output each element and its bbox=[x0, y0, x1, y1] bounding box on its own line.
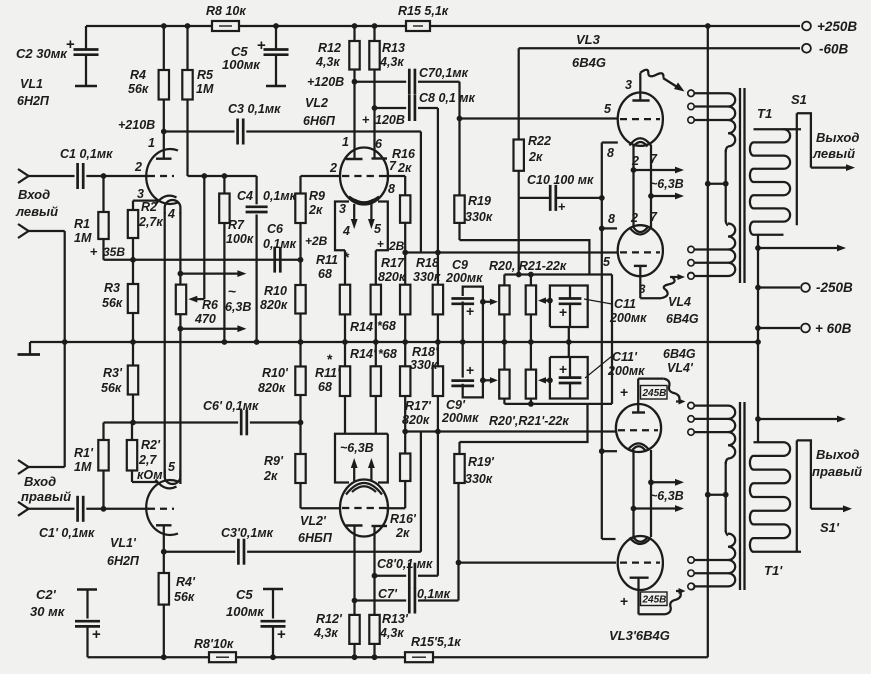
heater arrow up 2 bbox=[370, 464, 372, 481]
VL1 grid dashes bbox=[148, 175, 174, 177]
C9' wiper arrow bbox=[480, 377, 486, 383]
svg-text:+2В: +2В bbox=[305, 234, 328, 248]
resistor R17 bbox=[404, 253, 406, 285]
resistor R19' bbox=[458, 442, 460, 454]
svg-text:200мк: 200мк bbox=[445, 271, 483, 285]
svg-text:+: + bbox=[466, 303, 474, 319]
resistor R2 bbox=[132, 201, 134, 210]
node C8' tap bbox=[372, 573, 378, 579]
svg-text:68: 68 bbox=[318, 380, 332, 394]
svg-text:R10: R10 bbox=[264, 284, 287, 298]
svg-text:8: 8 bbox=[607, 146, 614, 160]
network top wire bbox=[504, 273, 612, 275]
svg-text:100мк: 100мк bbox=[226, 604, 265, 619]
capacitor C4 bbox=[255, 176, 257, 204]
node +120V bbox=[352, 79, 358, 85]
ground symbol bbox=[29, 342, 31, 354]
svg-text:R9': R9' bbox=[264, 454, 284, 468]
svg-text:R12': R12' bbox=[316, 612, 343, 626]
resistor R12' bbox=[352, 654, 358, 660]
potentiometer R21 bbox=[530, 275, 532, 286]
wire VL2' pin7 to R16' bbox=[386, 507, 405, 509]
svg-text:R15'5,1к: R15'5,1к bbox=[411, 635, 461, 649]
svg-text:+: + bbox=[92, 626, 101, 643]
C11' label pointer bbox=[585, 356, 612, 378]
svg-text:4,3к: 4,3к bbox=[313, 626, 338, 640]
wire C3' node bbox=[164, 551, 236, 553]
svg-text:VL1': VL1' bbox=[110, 536, 137, 550]
T1' primary lower terminal pins bbox=[688, 557, 694, 563]
capacitor C1 bbox=[76, 163, 79, 189]
svg-text:200мк: 200мк bbox=[607, 364, 645, 378]
svg-text:7: 7 bbox=[650, 152, 658, 166]
svg-text:R17: R17 bbox=[381, 256, 405, 270]
svg-text:R9: R9 bbox=[309, 189, 325, 203]
svg-text:+210В: +210В bbox=[118, 118, 155, 132]
svg-text:820к: 820к bbox=[260, 298, 288, 312]
resistor R4 bbox=[161, 23, 167, 29]
resistor R16 bbox=[400, 195, 410, 223]
capacitor C8' bbox=[408, 563, 411, 589]
resistor R10 bbox=[299, 260, 301, 285]
terminal +250V bbox=[802, 22, 811, 31]
wire C7' node bbox=[355, 599, 407, 601]
VL4 pin8 jog bbox=[599, 226, 605, 232]
svg-text:330к: 330к bbox=[465, 472, 493, 486]
resistor R11' bbox=[344, 342, 346, 366]
VL3 grid dashes bbox=[620, 118, 660, 120]
output arrow left bbox=[811, 166, 850, 168]
resistor R19 bbox=[458, 119, 460, 196]
capacitor C3' bbox=[237, 539, 240, 565]
C9 wiper arrow bbox=[480, 299, 486, 305]
svg-text:820к: 820к bbox=[258, 381, 286, 395]
svg-text:+120В: +120В bbox=[307, 75, 344, 89]
input arrow right channel hot bbox=[18, 502, 29, 516]
capacitor C1' bbox=[76, 496, 79, 522]
output arrow right bbox=[811, 508, 847, 510]
svg-text:VL4': VL4' bbox=[667, 361, 694, 375]
svg-text:R3: R3 bbox=[104, 281, 120, 295]
wire bottom bus bbox=[88, 656, 210, 658]
svg-text:-250В: -250В bbox=[816, 280, 853, 295]
tube VL2 bbox=[340, 148, 388, 205]
resistor R14 bbox=[375, 250, 377, 284]
VL4 grid dashes bbox=[620, 251, 660, 253]
svg-text:VL1: VL1 bbox=[20, 77, 43, 91]
svg-text:R5: R5 bbox=[197, 68, 214, 82]
switch S1 bbox=[797, 113, 811, 167]
tube VL4 bbox=[618, 225, 663, 276]
resistor R18 bbox=[437, 253, 439, 285]
wire C8' node bbox=[375, 575, 407, 577]
VL3' pin8 jog bbox=[602, 538, 616, 540]
node +120V lower bbox=[372, 105, 378, 111]
svg-text:30 мк: 30 мк bbox=[30, 604, 66, 619]
svg-text:6НБП: 6НБП bbox=[298, 531, 333, 545]
svg-text:245В: 245В bbox=[642, 595, 667, 606]
potentiometer R20 bbox=[503, 275, 505, 286]
node VL1' anode bbox=[161, 549, 167, 555]
svg-text:6В4G: 6В4G bbox=[572, 55, 606, 70]
capacitor C11' loop bbox=[550, 357, 588, 399]
resistor R12 bbox=[352, 23, 358, 29]
VL1 cathode bbox=[156, 196, 177, 205]
svg-text:5: 5 bbox=[604, 102, 612, 116]
VL4 heater arcs bbox=[630, 228, 652, 235]
heater tap arrow bottom upper bbox=[648, 479, 654, 485]
wire +120V to C7 bbox=[355, 81, 407, 83]
T1 primary terminal wires bbox=[695, 92, 729, 94]
wire R22 line to network bbox=[518, 198, 520, 275]
resistor R8 (in top bus) bbox=[212, 21, 239, 31]
svg-text:+: + bbox=[559, 361, 567, 377]
wire +210V to C3 to VL4 grid branch bbox=[164, 130, 235, 132]
heater arrow up 1 bbox=[353, 464, 355, 481]
switch S1' bbox=[797, 440, 811, 508]
heater box VL2' bbox=[335, 434, 388, 483]
svg-text:R11: R11 bbox=[316, 253, 338, 267]
wire C3 branch down bbox=[420, 132, 422, 253]
svg-text:2к: 2к bbox=[397, 161, 412, 175]
svg-text:200мк: 200мк bbox=[441, 411, 479, 425]
svg-text:2: 2 bbox=[631, 154, 639, 168]
VL2 cathode arc bbox=[349, 197, 379, 203]
svg-text:VL2: VL2 bbox=[305, 96, 328, 110]
svg-text:C70,1мк: C70,1мк bbox=[419, 66, 469, 80]
capacitor C10 bbox=[549, 185, 552, 211]
VL3' cathode bbox=[630, 577, 649, 579]
svg-text:R4': R4' bbox=[176, 575, 196, 589]
input arrow left channel return bbox=[18, 224, 29, 238]
svg-text:R13: R13 bbox=[382, 41, 405, 55]
svg-text:VL4: VL4 bbox=[668, 295, 691, 309]
svg-text:C2 30мк: C2 30мк bbox=[16, 46, 68, 61]
node C1-R1 bbox=[101, 173, 107, 179]
svg-text:4: 4 bbox=[342, 224, 350, 238]
wire ground bus bbox=[30, 341, 758, 343]
resistor R13' bbox=[372, 654, 378, 660]
svg-text:1: 1 bbox=[342, 135, 349, 149]
svg-text:С6' 0,1мк: С6' 0,1мк bbox=[203, 399, 259, 413]
terminal pin VL3 plate bbox=[688, 90, 694, 96]
arrow secondary return top bbox=[755, 245, 761, 251]
heater tap arrow upper bbox=[631, 167, 637, 173]
svg-text:+: + bbox=[277, 626, 286, 643]
svg-text:100к: 100к bbox=[226, 232, 254, 246]
svg-text:7: 7 bbox=[389, 159, 397, 173]
svg-text:470: 470 bbox=[194, 312, 216, 326]
svg-text:левый: левый bbox=[15, 204, 58, 219]
wire C10 node bbox=[519, 197, 550, 199]
svg-text:+: + bbox=[66, 36, 75, 53]
wire -60V bus bbox=[519, 47, 800, 49]
svg-text:R4: R4 bbox=[130, 68, 146, 82]
potentiometer R6 bbox=[176, 285, 186, 315]
heater tap arrow lower bbox=[648, 193, 654, 199]
svg-text:C3'0,1мк: C3'0,1мк bbox=[221, 526, 274, 540]
capacitor C2' bbox=[77, 588, 97, 591]
VL3 heater arcs bbox=[630, 138, 652, 145]
resistor R3' bbox=[132, 342, 134, 366]
heater arrow upper ~6.3V bbox=[178, 271, 184, 277]
wire C3' branch up bbox=[420, 432, 422, 552]
resistor R15 (in top bus) bbox=[406, 21, 430, 31]
svg-text:4,3к: 4,3к bbox=[379, 626, 404, 640]
heater box VL2 bbox=[335, 202, 349, 251]
svg-text:*: * bbox=[344, 249, 350, 265]
heater arrow 5 bbox=[370, 204, 372, 223]
svg-text:С8 0,1 мк: С8 0,1 мк bbox=[419, 91, 476, 105]
svg-text:R6: R6 bbox=[202, 298, 219, 312]
svg-text:кОм: кОм bbox=[137, 468, 162, 482]
svg-text:120В: 120В bbox=[375, 113, 405, 127]
VL2' anode bars bbox=[346, 524, 363, 526]
T1' center tap bbox=[705, 492, 711, 498]
T1' primary lower terminal wires bbox=[695, 559, 729, 561]
capacitor C6' bbox=[240, 410, 243, 436]
node ground-bus end bbox=[755, 339, 761, 345]
arrow secondary return bottom bbox=[755, 416, 761, 422]
wire C7 branch down bbox=[458, 82, 460, 119]
svg-text:3: 3 bbox=[625, 78, 632, 92]
T1 primary lower terminal pins bbox=[688, 246, 694, 252]
VL1' cathode bbox=[156, 480, 177, 489]
svg-text:C5: C5 bbox=[236, 587, 253, 602]
svg-text:*68: *68 bbox=[378, 347, 397, 361]
resistor R2' bbox=[131, 423, 133, 441]
VL3' grid dashes bbox=[620, 561, 660, 563]
svg-text:4,3к: 4,3к bbox=[315, 55, 340, 69]
tube VL3' bbox=[618, 536, 663, 590]
svg-text:2к: 2к bbox=[263, 469, 278, 483]
svg-text:4: 4 bbox=[167, 207, 175, 221]
svg-text:0,1мк: 0,1мк bbox=[417, 587, 451, 601]
node C1'-R1' bbox=[101, 506, 107, 512]
svg-text:S1: S1 bbox=[791, 92, 807, 107]
VL1 anode bbox=[156, 157, 172, 159]
svg-text:VL2': VL2' bbox=[300, 514, 327, 528]
svg-text:330к: 330к bbox=[465, 210, 493, 224]
heater leads VL3-VL4 bbox=[632, 145, 634, 228]
resistor R3 bbox=[132, 260, 134, 284]
svg-text:R20',R21'-22к: R20',R21'-22к bbox=[489, 414, 569, 428]
svg-text:2: 2 bbox=[134, 160, 142, 174]
R6 wiper arrow bbox=[203, 176, 205, 299]
T1' core bbox=[739, 402, 741, 590]
tube VL1 (half-envelope) bbox=[146, 149, 178, 204]
capacitor C2 bbox=[85, 26, 87, 49]
svg-text:56к: 56к bbox=[128, 82, 149, 96]
svg-text:3: 3 bbox=[137, 187, 144, 201]
svg-text:2к: 2к bbox=[528, 150, 543, 164]
heater arrow lower ~6.3V bbox=[178, 326, 184, 332]
VL3 pin8 jog bbox=[602, 141, 618, 143]
svg-text:R1': R1' bbox=[74, 446, 94, 460]
svg-text:R16': R16' bbox=[390, 512, 417, 526]
svg-text:C11': C11' bbox=[612, 350, 638, 364]
wire C7' branch up bbox=[457, 563, 459, 601]
resistor R16' bbox=[400, 454, 410, 482]
capacitor C7 bbox=[408, 69, 411, 95]
capacitor C9 loop bbox=[462, 302, 464, 343]
VL3' cathode squiggle to pin bbox=[639, 613, 666, 615]
T1' primary winding upper bbox=[728, 406, 735, 459]
potentiometer R21' bbox=[530, 342, 532, 370]
svg-text:8: 8 bbox=[608, 212, 615, 226]
svg-text:R14': R14' bbox=[350, 347, 377, 361]
node R5 line bbox=[201, 173, 207, 179]
svg-text:R19: R19 bbox=[468, 194, 491, 208]
wire +120V to C8 bbox=[375, 107, 407, 109]
svg-text:6В4G: 6В4G bbox=[663, 347, 696, 361]
svg-text:4,3к: 4,3к bbox=[379, 55, 404, 69]
wire B+ vertical to bottom transformer bbox=[707, 26, 709, 657]
svg-text:+: + bbox=[377, 237, 384, 251]
svg-text:100мк: 100мк bbox=[222, 57, 261, 72]
svg-text:56к: 56к bbox=[174, 590, 195, 604]
VL3' heater arcs bbox=[630, 538, 652, 545]
svg-text:Выход: Выход bbox=[816, 130, 859, 145]
T1 primary lower terminal wires bbox=[695, 248, 729, 250]
svg-text:+: + bbox=[558, 199, 566, 214]
svg-text:820к: 820к bbox=[402, 413, 430, 427]
svg-text:+: + bbox=[466, 362, 474, 378]
terminal pin VL4 cathode bbox=[688, 272, 694, 278]
wire C6' node bbox=[104, 421, 239, 423]
svg-text:Выход: Выход bbox=[816, 447, 859, 462]
svg-text:56к: 56к bbox=[101, 381, 122, 395]
C11 label pointer bbox=[584, 299, 612, 304]
svg-text:2,7к: 2,7к bbox=[138, 215, 163, 229]
capacitor C7' bbox=[408, 588, 411, 614]
capacitor C3 bbox=[236, 119, 239, 145]
wire +35V node bbox=[104, 259, 301, 261]
VL1' grid dashes bbox=[148, 508, 174, 510]
svg-text:6Н6П: 6Н6П bbox=[303, 114, 336, 128]
VL4' heater arcs bbox=[628, 443, 649, 449]
svg-text:R22: R22 bbox=[528, 134, 551, 148]
T1 primary terminal pins bbox=[688, 90, 694, 96]
wire C8 branch down bbox=[437, 108, 439, 253]
resistor R1 bbox=[102, 176, 104, 212]
svg-text:3: 3 bbox=[639, 284, 646, 296]
svg-text:245В: 245В bbox=[642, 388, 667, 399]
node +210V bbox=[161, 129, 167, 135]
svg-text:R7: R7 bbox=[228, 218, 245, 232]
svg-text:R12: R12 bbox=[318, 41, 341, 55]
svg-text:6,3В: 6,3В bbox=[225, 300, 251, 314]
resistor R22 bbox=[518, 48, 520, 139]
svg-text:+250В: +250В bbox=[817, 19, 857, 34]
svg-text:1М: 1М bbox=[196, 82, 214, 96]
svg-text:2к: 2к bbox=[308, 203, 323, 217]
VL4 cathode squiggle to pin bbox=[640, 297, 661, 299]
wire grid-bias line x602 bbox=[601, 198, 603, 539]
capacitor C5' bbox=[263, 588, 283, 591]
svg-text:C3 0,1мк: C3 0,1мк bbox=[228, 102, 281, 116]
svg-text:~: ~ bbox=[228, 283, 236, 299]
VL3 anode bbox=[632, 99, 649, 101]
terminal pin VL3' cathode bbox=[688, 583, 694, 589]
terminal -60V bbox=[802, 44, 811, 53]
svg-text:С6: С6 bbox=[267, 222, 284, 236]
resistor R13 bbox=[372, 23, 378, 29]
svg-text:R11': R11' bbox=[315, 366, 341, 380]
VL2' grid dashes bbox=[342, 507, 386, 509]
VL3 anode squiggle to pin bbox=[640, 70, 663, 78]
svg-text:T1': T1' bbox=[764, 563, 783, 578]
wire VL3 grid feed bbox=[460, 117, 618, 119]
svg-text:+: + bbox=[620, 593, 628, 609]
svg-text:+: + bbox=[257, 37, 266, 54]
svg-text:C10 100 мк: C10 100 мк bbox=[527, 173, 594, 187]
svg-text:R18': R18' bbox=[412, 345, 439, 359]
svg-text:6В4G: 6В4G bbox=[666, 312, 699, 326]
svg-text:2: 2 bbox=[329, 161, 337, 175]
svg-text:1М: 1М bbox=[74, 231, 92, 245]
svg-text:R8'10к: R8'10к bbox=[194, 637, 234, 651]
C11 wiper arrow bbox=[547, 298, 553, 304]
resistor R7 bbox=[223, 176, 225, 194]
svg-text:820к: 820к bbox=[378, 270, 406, 284]
resistor R15' (in bottom bus) bbox=[405, 652, 433, 662]
svg-text:R2': R2' bbox=[141, 438, 161, 452]
VL4' cathode squiggle to pin bbox=[638, 377, 664, 379]
VL4' pin8 jog bbox=[599, 448, 605, 454]
svg-text:3: 3 bbox=[339, 202, 346, 216]
potentiometer R20' bbox=[503, 342, 505, 370]
VL2 anode bars bbox=[346, 158, 363, 160]
capacitor C9' loop bbox=[462, 342, 464, 378]
svg-text:56к: 56к bbox=[102, 296, 123, 310]
svg-text:6Н2П: 6Н2П bbox=[107, 554, 140, 568]
svg-text:2В: 2В bbox=[388, 239, 405, 253]
T1' primary center lead bbox=[725, 462, 727, 532]
VL4' grid dashes bbox=[618, 429, 658, 431]
input arrow right channel return bbox=[29, 466, 65, 468]
resistor R9 bbox=[301, 175, 341, 177]
T1' primary winding lower bbox=[726, 531, 728, 536]
resistor R8' (in bottom bus) bbox=[209, 652, 236, 662]
svg-text:1М: 1М bbox=[74, 460, 92, 474]
wire T1 secondary return bbox=[757, 235, 759, 442]
svg-text:правый: правый bbox=[21, 489, 71, 504]
resistor R5 bbox=[185, 23, 191, 29]
capacitor C5 bbox=[273, 23, 279, 29]
wire R19 zigzag to R19' bbox=[460, 240, 590, 274]
tube VL1' (half-envelope) bbox=[146, 480, 178, 535]
heater arrow 4 bbox=[353, 204, 355, 223]
svg-text:*68: *68 bbox=[377, 319, 396, 333]
svg-text:+: + bbox=[620, 384, 628, 400]
node C7' tap bbox=[352, 598, 358, 604]
heater tap arrow bottom lower bbox=[631, 506, 637, 512]
resistor R11 bbox=[344, 250, 346, 284]
svg-text:S1': S1' bbox=[820, 520, 840, 535]
VL4' cathode bbox=[632, 411, 645, 413]
resistor R14' bbox=[375, 342, 377, 366]
resistor R10' bbox=[299, 342, 301, 367]
svg-text:~6,3В: ~6,3В bbox=[650, 177, 684, 191]
svg-text:C8'0,1 мк: C8'0,1 мк bbox=[377, 557, 433, 571]
wire VL4 grid feed bbox=[405, 251, 617, 253]
svg-text:68: 68 bbox=[318, 267, 332, 281]
svg-text:35В: 35В bbox=[103, 245, 125, 259]
svg-text:правый: правый bbox=[812, 464, 862, 479]
T1 center tap bbox=[705, 181, 711, 187]
svg-text:C11: C11 bbox=[614, 297, 636, 311]
